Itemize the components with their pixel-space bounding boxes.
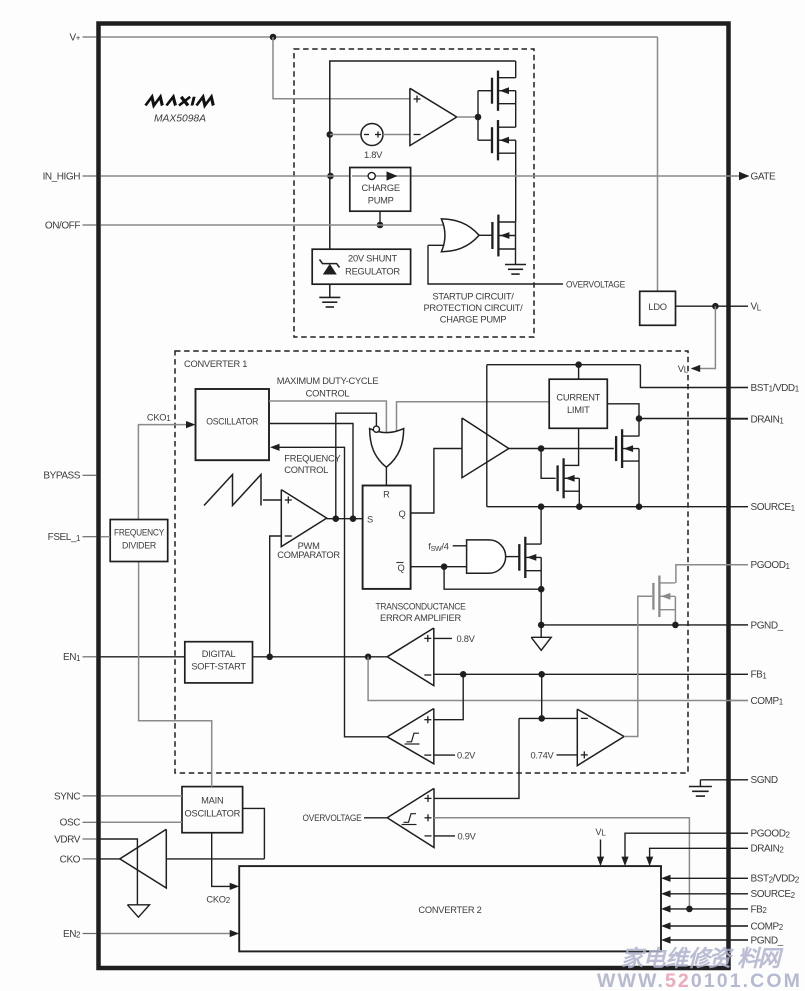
node V+ branch [270, 34, 277, 41]
svg-text:SYNC: SYNC [54, 791, 80, 802]
wire FSEL_1 [101, 536, 111, 538]
transistor Q5 power right [621, 429, 623, 468]
svg-text:BST1/VDD1: BST1/VDD1 [751, 383, 800, 394]
wire cko buffer in [166, 858, 264, 860]
svg-text:REGULATOR: REGULATOR [345, 266, 400, 276]
wire Q to buffer [411, 449, 462, 514]
svg-text:0.74V: 0.74V [530, 751, 554, 761]
wire down to pgnd [540, 589, 542, 625]
svg-text:网: 网 [758, 946, 784, 971]
node opamp out gate tie [475, 114, 482, 121]
wire 074 out [624, 596, 652, 736]
wire FB2 [670, 908, 748, 910]
digital soft-start box [185, 642, 253, 683]
svg-text:VL: VL [751, 302, 762, 313]
arrow BST2 [661, 875, 671, 882]
wire pwm minus [270, 536, 282, 657]
converter1 dashed box [175, 351, 688, 773]
wire SOURCE1 [487, 506, 748, 508]
wire LDO to VL pin [676, 305, 749, 307]
svg-text:FREQUENCY: FREQUENCY [114, 527, 164, 537]
svg-text:CONVERTER 1: CONVERTER 1 [184, 359, 247, 369]
node S 2 [350, 515, 357, 522]
wire COMP1 [368, 657, 748, 701]
node FB1 a [460, 671, 467, 678]
wire Qbar down right [444, 567, 541, 590]
nor-gate U3 duty logic [370, 429, 404, 468]
svg-text:CKO1: CKO1 [147, 412, 171, 423]
current limit box [549, 379, 607, 428]
svg-text:OVERVOLTAGE: OVERVOLTAGE [566, 279, 625, 289]
svg-text:ON/OFF: ON/OFF [45, 220, 80, 231]
node q6 source junction [538, 586, 545, 593]
op-amp U1 startup comparator [410, 88, 457, 145]
wire cl bottom pin [578, 428, 580, 466]
wire 0.74V stub [557, 754, 578, 756]
svg-text:CHARGE PUMP: CHARGE PUMP [440, 315, 507, 325]
node SOURCE1 a [538, 503, 545, 510]
wire VDRV [101, 839, 138, 905]
svg-text:PUMP: PUMP [368, 196, 394, 206]
svg-text:0.2V: 0.2V [457, 751, 476, 761]
arrow PGOOD2 [621, 857, 628, 867]
arrow EN2 [230, 930, 240, 937]
svg-text:OSCILLATOR: OSCILLATOR [185, 809, 241, 819]
wire VL arrow conv2 [600, 840, 602, 858]
svg-text:FSEL_1: FSEL_1 [48, 532, 81, 543]
node FB1 b [538, 671, 545, 678]
wire VL down-left [692, 306, 715, 368]
wire q6 drain [540, 543, 542, 545]
ground SGND [689, 786, 712, 788]
svg-text:WWW.520101.COM: WWW.520101.COM [597, 970, 802, 991]
wire ov plus path [434, 718, 519, 798]
wire nmos src [515, 236, 517, 265]
svg-text:GATE: GATE [751, 171, 776, 182]
wire rail to gnd [329, 284, 331, 297]
svg-text:1.8V: 1.8V [364, 150, 383, 160]
ground shunt regulator [319, 296, 340, 298]
wire pgood1 drain [676, 565, 748, 583]
wire q5 tie [638, 449, 640, 507]
wire EN1 [101, 656, 185, 658]
arrow VL conv2 [597, 857, 604, 867]
wire V+ to opamp noninv [273, 37, 410, 99]
svg-text:VDRV: VDRV [54, 834, 81, 845]
svg-text:CONTROL: CONTROL [306, 388, 350, 398]
arrow frequency control into osc [270, 444, 280, 451]
svg-text:PGOOD1: PGOOD1 [751, 560, 791, 571]
svg-text:OSCILLATOR: OSCILLATOR [206, 417, 258, 427]
svg-text:Q: Q [399, 509, 406, 519]
svg-text:STARTUP CIRCUIT/: STARTUP CIRCUIT/ [432, 292, 514, 302]
wire q4 tie [578, 478, 580, 506]
node PGND junction [538, 622, 545, 629]
charge pump box [350, 168, 411, 212]
svg-text:MAX5098A: MAX5098A [154, 114, 206, 125]
wire opamp out [457, 116, 478, 118]
svg-text:TRANSCONDUCTANCE: TRANSCONDUCTANCE [376, 602, 466, 612]
node 074 in [538, 715, 545, 722]
wire PGND2 [670, 939, 748, 941]
wire DRAIN1 to pin [639, 418, 748, 420]
arrow GATE out [739, 172, 750, 181]
wire top rail conv1 [487, 364, 641, 366]
wire or input2 [428, 244, 445, 246]
node rail x IN_HIGH [327, 173, 334, 180]
svg-text:FB1: FB1 [751, 670, 768, 681]
wire SYNC [101, 795, 183, 797]
wire PGOOD2 [625, 833, 748, 857]
wire fb1 to 02comp [434, 674, 463, 719]
node Qbar [441, 563, 448, 570]
zener diode D1 [323, 264, 337, 275]
wire 0.2V [434, 754, 455, 756]
pwm comparator U4 [281, 490, 326, 547]
svg-text:DIGITAL: DIGITAL [202, 649, 236, 659]
and-gate U7 fsw4 [467, 540, 506, 573]
wire S to nor bubble [336, 413, 377, 519]
wire ON/OFF [101, 224, 444, 226]
wire FB1 [434, 673, 748, 675]
svg-text:OVERVOLTAGE: OVERVOLTAGE [303, 813, 362, 823]
node en1 b [365, 654, 372, 661]
svg-text:DRAIN2: DRAIN2 [751, 844, 785, 855]
svg-text:VL: VL [595, 827, 606, 838]
error amp U8 [387, 628, 434, 686]
svg-text:SOFT-START: SOFT-START [191, 662, 246, 672]
wire current limit top pin [578, 365, 580, 380]
or-gate U2 startup [441, 219, 479, 252]
wire PGND_ line [541, 624, 748, 626]
wire rail left down [486, 365, 488, 507]
node rail x 1.8V wire [327, 131, 334, 138]
wire gate leads [478, 90, 492, 92]
comparator U10 0.74V [577, 709, 624, 766]
node gate drive branch [538, 445, 545, 452]
signal ground triangle conv1 [540, 625, 542, 637]
wire overvoltage L [428, 245, 563, 284]
svg-text:COMP1: COMP1 [751, 696, 784, 707]
svg-text:电: 电 [643, 946, 667, 971]
wire ov mid to FB2 [434, 818, 689, 909]
comparator U12 overvoltage [387, 788, 434, 847]
signal ground triangle cko [127, 905, 149, 917]
svg-text:资: 资 [709, 946, 735, 971]
arrow PGND2 [661, 936, 671, 943]
svg-text:FB2: FB2 [751, 904, 768, 915]
transistor Q2 startup PMOS bottom [497, 120, 499, 160]
svg-text:CKO2: CKO2 [206, 895, 230, 906]
wire nmos drain rail [515, 222, 517, 235]
arrow FB2 [661, 905, 671, 912]
oscillator box [196, 389, 270, 460]
wire fsw fet drain [540, 507, 542, 544]
wire fb1 to 074comp [542, 674, 578, 718]
svg-text:DIVIDER: DIVIDER [122, 540, 156, 550]
wire gate tie vertical [477, 91, 479, 141]
transistor Q6 fsw skip [524, 537, 526, 578]
node VL [712, 303, 719, 310]
wire BST corner [640, 365, 748, 388]
wire and out [506, 556, 520, 558]
svg-text:V+: V+ [70, 32, 81, 43]
wire IN_HIGH to GATE [101, 175, 741, 177]
svg-text:PGND_: PGND_ [751, 620, 784, 631]
node SOURCE1 c [636, 503, 643, 510]
svg-text:Q: Q [398, 563, 405, 573]
wire V+ rail [101, 36, 658, 38]
startup dashed box [294, 49, 534, 337]
wire charge pump bottom pin [379, 211, 381, 225]
svg-text:CKO: CKO [60, 854, 81, 865]
svg-text:MAIN: MAIN [201, 796, 223, 806]
wire fsw4 in [453, 545, 467, 547]
svg-text:CONTROL: CONTROL [284, 465, 328, 475]
svg-text:SGND: SGND [751, 775, 778, 786]
wire nor out to R [385, 467, 387, 485]
arrow DRAIN2 [646, 857, 653, 867]
wire 074line to ov [519, 717, 542, 719]
charge pump symbols [352, 175, 410, 177]
svg-text:0.9V: 0.9V [458, 832, 477, 842]
wire ov label stub [364, 817, 387, 819]
wire CKO [101, 858, 120, 860]
svg-text:0.8V: 0.8V [457, 634, 476, 644]
node DRAIN1 [636, 415, 643, 422]
svg-text:DRAIN1: DRAIN1 [751, 415, 785, 426]
wire Qbar out [411, 566, 467, 568]
wire q5 drain [638, 419, 640, 437]
wire SOURCE2 [670, 893, 748, 895]
wire maxduty to current limit [397, 402, 550, 434]
wire osc maxduty out [269, 401, 386, 435]
svg-text:COMP2: COMP2 [751, 921, 784, 932]
wire sgnd stub [699, 780, 701, 787]
wire SGND [700, 779, 748, 781]
wire V+ down to LDO [657, 37, 659, 291]
wire mainosc out [243, 808, 265, 859]
wire EN2 [101, 933, 231, 935]
svg-text:LDO: LDO [648, 302, 666, 312]
svg-text:LIMIT: LIMIT [567, 405, 590, 415]
svg-text:IN_HIGH: IN_HIGH [43, 171, 81, 182]
frequency divider box [110, 520, 168, 562]
buffer U11 CKO [120, 829, 167, 888]
arrow CKO1 into oscillator [186, 421, 196, 428]
transistor Q3 startup NMOS [497, 215, 499, 257]
svg-text:R: R [383, 490, 390, 500]
node current limit top [575, 361, 582, 368]
wire CKO1 from divider [138, 425, 186, 520]
arrow CKO2 [230, 883, 240, 890]
svg-text:PROTECTION CIRCUIT/: PROTECTION CIRCUIT/ [423, 303, 523, 313]
svg-text:OSC: OSC [60, 818, 81, 829]
node en1 a [266, 654, 273, 661]
transistor Q4 power left [562, 458, 564, 498]
arrow VL into conv1 [691, 365, 701, 372]
svg-text:SOURCE2: SOURCE2 [751, 889, 796, 900]
svg-text:EN1: EN1 [63, 652, 81, 663]
wire gate drive [509, 448, 614, 450]
comparator U9 0.2V [387, 709, 434, 764]
wire CKO2 [212, 833, 231, 887]
wire or out [479, 234, 492, 236]
svg-text:CHARGE: CHARGE [362, 183, 400, 193]
wire softstart out [253, 656, 388, 658]
svg-text:VL: VL [678, 364, 689, 375]
svg-text:CURRENT: CURRENT [556, 393, 600, 403]
buffer U6 gate driver [462, 418, 509, 478]
svg-text:COMPARATOR: COMPARATOR [277, 550, 340, 560]
outer case border [99, 24, 729, 969]
svg-text:PGND_: PGND_ [751, 935, 784, 946]
svg-text:BYPASS: BYPASS [43, 471, 80, 482]
wire startup top rail [330, 61, 516, 249]
latch U5 SR [363, 486, 411, 589]
transistor Q1 startup PMOS top [497, 71, 499, 111]
converter2 box [239, 866, 661, 951]
svg-text:ERROR AMPLIFIER: ERROR AMPLIFIER [380, 613, 462, 623]
svg-text:PGOOD2: PGOOD2 [751, 829, 791, 840]
svg-text:20V SHUNT: 20V SHUNT [348, 253, 397, 263]
ground startup nmos [505, 264, 526, 266]
wire q6 src tie [540, 557, 542, 589]
node pgnd pgood [672, 622, 679, 629]
Maxim logo [146, 97, 216, 106]
svg-text:SOURCE1: SOURCE1 [751, 502, 796, 513]
wire branch to left fet gate [541, 449, 556, 479]
wire divider to mainosc [139, 562, 212, 787]
arrow SOURCE2 [661, 890, 671, 897]
wire osc out to S [269, 424, 353, 519]
node SOURCE1 b [576, 503, 583, 510]
wire pmos rail segs [515, 61, 517, 78]
sawtooth waveform symbol [204, 475, 261, 506]
node FB2 [686, 906, 693, 913]
wire COMP2 [670, 925, 748, 927]
wire DRAIN2 [650, 848, 748, 857]
LDO box [640, 291, 676, 325]
wire 0.8V [434, 637, 452, 639]
wire frequency control [280, 447, 388, 737]
wire pwm out S [327, 518, 363, 520]
wire 0.9V stub [434, 835, 455, 837]
voltage source 1.8V [330, 134, 361, 136]
shunt regulator box [312, 249, 410, 284]
svg-text:EN2: EN2 [63, 929, 81, 940]
svg-text:S: S [367, 514, 373, 524]
svg-text:FREQUENCY: FREQUENCY [284, 454, 340, 464]
main oscillator box [182, 787, 243, 833]
node S 1 [333, 515, 340, 522]
svg-text:MAXIMUM DUTY-CYCLE: MAXIMUM DUTY-CYCLE [277, 376, 379, 386]
wire pwm plus stub [263, 499, 281, 501]
wire BST2 [670, 877, 748, 879]
wire current limit right pin [607, 404, 639, 419]
wire pgood1 tie [674, 596, 676, 625]
svg-text:CONVERTER 2: CONVERTER 2 [418, 905, 481, 915]
wire OSC [101, 821, 183, 823]
node charge pump x ON/OFF [377, 222, 384, 229]
arrow COMP2 [661, 922, 671, 929]
transistor Q7 pgood1 [658, 576, 660, 618]
svg-text:BST2/VDD2: BST2/VDD2 [751, 874, 800, 885]
